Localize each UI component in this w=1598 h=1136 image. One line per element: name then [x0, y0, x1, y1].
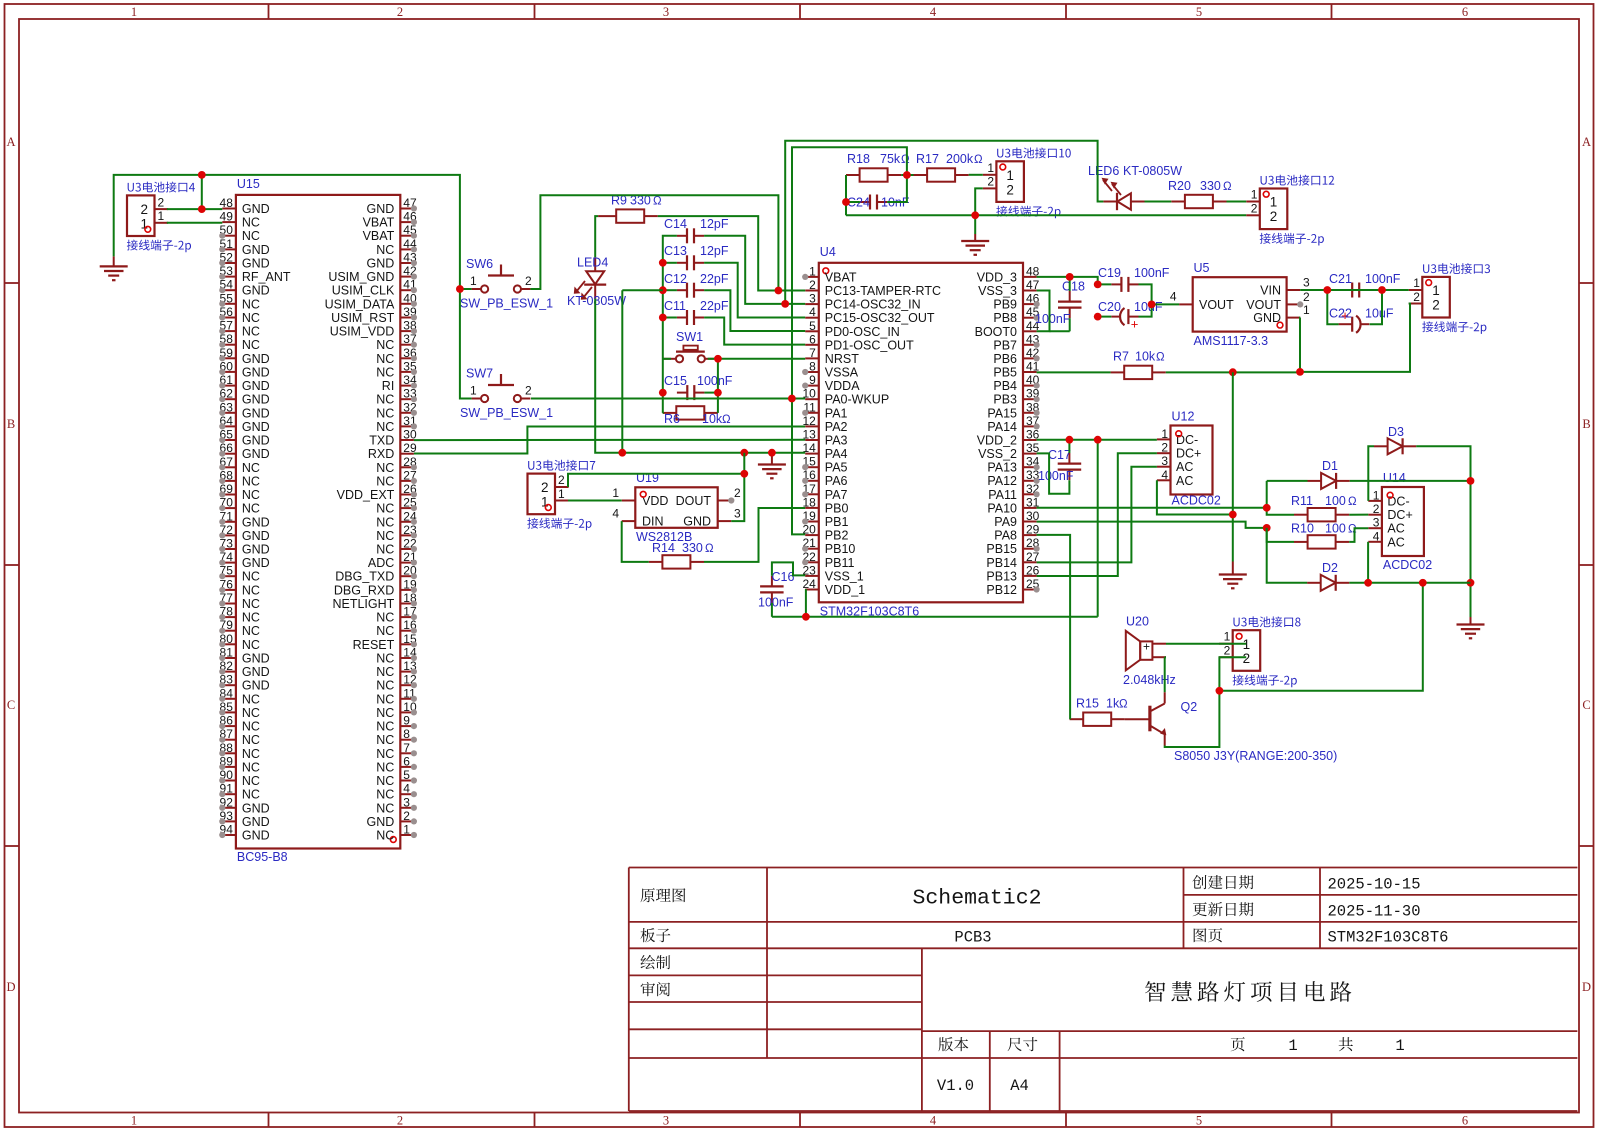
svg-text:NC: NC [376, 529, 394, 543]
svg-text:NC: NC [242, 760, 260, 774]
svg-text:NC: NC [376, 393, 394, 407]
svg-text:NC: NC [242, 747, 260, 761]
svg-text:GND: GND [242, 447, 270, 461]
connector U3dianchi-12 (接线端子-2p) [1246, 175, 1334, 246]
wire U5 GND down [1299, 318, 1301, 372]
svg-text:2: 2 [403, 809, 410, 823]
svg-text:GND: GND [242, 257, 270, 271]
wire top net A to PC14 and LED6 [785, 141, 1103, 304]
svg-text:3: 3 [1373, 516, 1380, 530]
wire D3 cathode to right column [1416, 446, 1470, 617]
svg-text:Ω: Ω [1156, 352, 1165, 364]
svg-text:4: 4 [1170, 290, 1177, 304]
svg-text:BOOT0: BOOT0 [975, 325, 1017, 339]
junction PA9/R10 [1263, 524, 1271, 532]
svg-text:USIM_RST: USIM_RST [331, 311, 395, 325]
svg-text:2: 2 [397, 1114, 403, 1128]
svg-text:GND: GND [242, 420, 270, 434]
wire U15 TXD to PA3 [414, 439, 805, 441]
capacitor C14 12pF [664, 217, 729, 243]
svg-text:GND: GND [242, 352, 270, 366]
svg-text:1: 1 [1270, 195, 1278, 210]
svg-text:2: 2 [1161, 441, 1168, 455]
svg-text:1: 1 [1432, 283, 1440, 298]
svg-text:BC95-B8: BC95-B8 [237, 850, 288, 864]
svg-text:NC: NC [376, 515, 394, 529]
svg-text:NC: NC [376, 733, 394, 747]
svg-text:NC: NC [376, 692, 394, 706]
svg-text:NC: NC [376, 461, 394, 475]
svg-text:Ω: Ω [901, 154, 910, 166]
ground PA4 net [758, 453, 786, 479]
svg-text:PB4: PB4 [993, 379, 1017, 393]
svg-text:NETLIGHT: NETLIGHT [332, 597, 394, 611]
svg-text:GND: GND [242, 365, 270, 379]
junction R7 row [1229, 368, 1304, 376]
svg-text:NC: NC [242, 611, 260, 625]
svg-text:Schematic2: Schematic2 [912, 887, 1041, 911]
svg-text:R14: R14 [652, 541, 675, 555]
svg-text:U15: U15 [237, 177, 260, 191]
svg-text:2: 2 [1006, 182, 1014, 197]
svg-text:VDD_3: VDD_3 [977, 270, 1017, 284]
svg-text:VBAT: VBAT [825, 270, 857, 284]
svg-text:NC: NC [242, 461, 260, 475]
svg-text:GND: GND [242, 665, 270, 679]
wire VDD_1 to 3V3 rail [772, 439, 1098, 616]
svg-text:100: 100 [1325, 522, 1346, 536]
wire U14 DC- to D3 anode [1368, 446, 1374, 501]
svg-text:VSSA: VSSA [825, 366, 859, 380]
junction ground rail [842, 171, 979, 219]
svg-text:PC13-TAMPER-RTC: PC13-TAMPER-RTC [825, 284, 941, 298]
svg-text:DBG_TXD: DBG_TXD [335, 570, 394, 584]
svg-text:100nF: 100nF [1035, 312, 1071, 326]
svg-text:NC: NC [242, 502, 260, 516]
svg-text:5: 5 [1196, 5, 1202, 19]
IC U19 WS2812B [612, 471, 741, 544]
svg-text:1: 1 [809, 264, 816, 278]
junction dots GND row [618, 449, 775, 457]
switch SW7 SW_PB_ESW_1 [460, 367, 553, 421]
svg-text:VBAT: VBAT [363, 216, 395, 230]
svg-text:2: 2 [987, 175, 994, 189]
wire PA10 to D1/R11 [1037, 481, 1308, 515]
svg-text:PA9: PA9 [994, 515, 1017, 529]
svg-text:PD1-OSC_OUT: PD1-OSC_OUT [825, 338, 914, 352]
svg-text:2: 2 [1251, 201, 1258, 215]
svg-text:2: 2 [1303, 290, 1310, 304]
svg-text:5: 5 [403, 768, 410, 782]
svg-text:1: 1 [131, 5, 137, 19]
svg-text:A4: A4 [1010, 1077, 1029, 1095]
capacitor C16 100nF [758, 570, 794, 610]
svg-text:GND: GND [683, 515, 711, 529]
svg-text:S8050 J3Y(RANGE:200-350): S8050 J3Y(RANGE:200-350) [1174, 749, 1337, 763]
svg-text:D: D [1582, 980, 1591, 994]
svg-text:3: 3 [663, 1114, 669, 1128]
svg-text:2: 2 [1270, 209, 1278, 224]
svg-text:Ω: Ω [974, 154, 983, 166]
svg-text:PA12: PA12 [987, 474, 1017, 488]
resistor R15 1k [1070, 697, 1128, 726]
svg-text:330: 330 [682, 541, 703, 555]
wire VDD_2 to U12 [1037, 440, 1157, 453]
svg-text:VSS_1: VSS_1 [825, 569, 864, 583]
svg-text:4: 4 [930, 5, 937, 19]
svg-text:PB13: PB13 [986, 569, 1017, 583]
svg-text:100nF: 100nF [697, 374, 733, 388]
wire R20 to conn12.1 [1227, 201, 1247, 203]
svg-text:TXD: TXD [369, 434, 394, 448]
svg-text:3: 3 [1303, 276, 1310, 290]
LED LED6 KT-0805W [1088, 164, 1182, 210]
svg-text:USIM_CLK: USIM_CLK [332, 284, 395, 298]
svg-text:12pF: 12pF [700, 244, 729, 258]
svg-text:3: 3 [403, 795, 410, 809]
svg-text:8: 8 [809, 360, 816, 374]
svg-text:NC: NC [376, 788, 394, 802]
wire PA8 to R15 [1037, 535, 1071, 719]
junction conn8 net [1216, 687, 1224, 695]
svg-text:C14: C14 [664, 217, 687, 231]
svg-text:NC: NC [242, 311, 260, 325]
wire R17 to conn10.1 [969, 174, 983, 176]
svg-text:AC: AC [1387, 535, 1404, 549]
svg-text:NC: NC [242, 597, 260, 611]
svg-text:GND: GND [242, 815, 270, 829]
capacitor C20 10uF polarized [1098, 300, 1163, 332]
svg-text:R18: R18 [847, 152, 870, 166]
svg-text:NC: NC [376, 352, 394, 366]
capacitor C11 22pF [664, 299, 729, 325]
svg-text:NC: NC [376, 502, 394, 516]
svg-text:NC: NC [376, 760, 394, 774]
svg-text:GND: GND [242, 556, 270, 570]
wire R10 to U14 AC3 [1349, 528, 1368, 542]
svg-text:C17: C17 [1048, 448, 1071, 462]
svg-text:2: 2 [541, 480, 549, 495]
svg-text:R10: R10 [1291, 522, 1314, 536]
wire C13 to PC15 [704, 263, 805, 318]
wire buzzer+ to conn8.1 [1166, 643, 1246, 645]
svg-text:GND: GND [242, 679, 270, 693]
svg-text:U4: U4 [820, 245, 836, 259]
svg-text:PB7: PB7 [993, 338, 1017, 352]
svg-text:4: 4 [1161, 468, 1168, 482]
svg-text:NC: NC [376, 474, 394, 488]
svg-text:1: 1 [558, 487, 565, 501]
svg-text:10k: 10k [1135, 350, 1156, 364]
svg-text:USIM_DATA: USIM_DATA [325, 297, 395, 311]
capacitor C15 100nF [664, 374, 733, 400]
svg-text:U5: U5 [1194, 261, 1210, 275]
svg-text:NC: NC [242, 692, 260, 706]
resistor R17 200k [914, 152, 984, 182]
wire C12 to PD0 [704, 290, 805, 331]
svg-text:AC: AC [1176, 460, 1193, 474]
wire C16 to VSS_1 [772, 562, 805, 575]
resistor R11 100 [1291, 494, 1357, 521]
wire C14 to PC14 [704, 236, 805, 304]
svg-text:NC: NC [242, 338, 260, 352]
svg-text:KT-0805W: KT-0805W [567, 294, 626, 308]
svg-text:SW7: SW7 [466, 367, 493, 381]
svg-text:C11: C11 [664, 299, 686, 313]
wire conn3.2 down to R7 row [1300, 304, 1410, 372]
svg-text:Ω: Ω [1223, 181, 1232, 193]
svg-text:6: 6 [1462, 1114, 1468, 1128]
svg-text:2: 2 [525, 384, 532, 398]
svg-text:4: 4 [1373, 529, 1380, 543]
svg-text:1: 1 [1006, 168, 1014, 183]
svg-text:6: 6 [403, 754, 410, 768]
svg-text:12pF: 12pF [700, 217, 729, 231]
svg-text:RXD: RXD [368, 447, 394, 461]
wire SW1/C15/R6 right to NRST [704, 359, 805, 413]
svg-text:U12: U12 [1172, 410, 1195, 424]
wire C19/C20 to U5 VOUT [1098, 284, 1179, 316]
svg-text:2: 2 [141, 202, 149, 217]
resistor R20 330 [1168, 179, 1232, 208]
svg-text:PA13: PA13 [987, 461, 1017, 475]
wire U19 DIN to R14 [622, 521, 649, 562]
svg-text:C21: C21 [1329, 272, 1352, 286]
svg-text:1k: 1k [1106, 697, 1120, 711]
junction D2 row [1364, 579, 1427, 587]
IC U15 BC95-B8 [219, 177, 417, 864]
svg-text:VDD_1: VDD_1 [825, 583, 865, 597]
svg-text:NC: NC [376, 243, 394, 257]
svg-text:GND: GND [242, 379, 270, 393]
svg-text:C18: C18 [1062, 280, 1085, 294]
wire Q2 emitter / conn8.2 ground net [1165, 657, 1247, 747]
svg-text:PB14: PB14 [986, 556, 1017, 570]
wire VSS_2 to C17 [1037, 453, 1070, 493]
svg-text:6: 6 [1462, 5, 1468, 19]
svg-text:10uF: 10uF [1134, 300, 1163, 314]
svg-text:5: 5 [809, 319, 816, 333]
resistor R10 100 [1291, 522, 1357, 549]
transistor Q2 S8050 [1125, 692, 1337, 763]
wire Q2 collector to buzzer [1165, 657, 1166, 692]
IC U5 AMS1117-3.3 [1170, 261, 1310, 348]
svg-text:1: 1 [1373, 488, 1380, 502]
svg-text:1: 1 [1413, 276, 1420, 290]
diode D3 [1374, 425, 1416, 454]
wire SW7.2 to PA0 [531, 398, 805, 400]
diode D2 [1307, 561, 1349, 591]
diode D1 [1308, 459, 1350, 489]
svg-text:NC: NC [242, 488, 260, 502]
svg-text:NC: NC [376, 624, 394, 638]
svg-text:PA3: PA3 [825, 434, 848, 448]
svg-text:NC: NC [242, 774, 260, 788]
resistor R14 330 [649, 541, 714, 569]
svg-text:NC: NC [242, 788, 260, 802]
junction PC13 [775, 287, 783, 295]
svg-text:DC-: DC- [1387, 494, 1409, 508]
svg-text:2: 2 [158, 195, 165, 209]
svg-text:RESET: RESET [353, 638, 395, 652]
wire R11 to U14 DC+ [1349, 514, 1368, 516]
svg-text:PA5: PA5 [825, 461, 848, 475]
svg-text:NC: NC [376, 543, 394, 557]
svg-text:GND: GND [1253, 311, 1281, 325]
svg-text:VIN: VIN [1260, 284, 1281, 298]
IC U4 STM32F103C8T6 [802, 245, 1040, 619]
svg-text:PB12: PB12 [986, 583, 1017, 597]
ground conn10 net [961, 234, 989, 255]
title block text [641, 875, 1449, 1095]
wire U15 RXD to PA2 [414, 427, 805, 454]
wire BOOT0 ground column [1232, 372, 1234, 561]
svg-text:SW_PB_ESW_1: SW_PB_ESW_1 [460, 406, 553, 420]
svg-text:49: 49 [220, 210, 234, 224]
svg-text:2.048kHz: 2.048kHz [1123, 673, 1176, 687]
svg-text:R11: R11 [1291, 494, 1313, 508]
svg-text:100nF: 100nF [1134, 266, 1170, 280]
junction SW1 right [714, 355, 722, 397]
svg-text:PA0-WKUP: PA0-WKUP [825, 393, 889, 407]
buzzer U20 2.048kHz [1123, 615, 1176, 688]
svg-text:C15: C15 [664, 374, 687, 388]
svg-text:GND: GND [242, 406, 270, 420]
svg-text:VOUT: VOUT [1199, 298, 1234, 312]
svg-text:GND: GND [242, 801, 270, 815]
svg-text:STM32F103C8T6: STM32F103C8T6 [1328, 929, 1449, 947]
svg-text:GND: GND [242, 393, 270, 407]
svg-text:A: A [1582, 135, 1591, 149]
svg-text:2025-11-30: 2025-11-30 [1328, 903, 1421, 921]
wire GND row via LED4 cathode [595, 290, 805, 453]
svg-text:ADC: ADC [368, 556, 394, 570]
svg-text:2: 2 [1413, 290, 1420, 304]
svg-text:C13: C13 [664, 244, 687, 258]
wire R18 R17 junction [887, 175, 913, 202]
wire U19 GND to PA4 row [731, 453, 744, 521]
wire U5 VIN to C21/conn3 [1300, 290, 1409, 324]
svg-text:GND: GND [242, 434, 270, 448]
resistor R7 10k [1111, 350, 1166, 380]
svg-text:2: 2 [397, 5, 403, 19]
wire PA9 to R10 [1037, 522, 1294, 542]
svg-text:PC15-OSC32_OUT: PC15-OSC32_OUT [825, 311, 935, 325]
svg-text:GND: GND [367, 202, 395, 216]
svg-text:1: 1 [131, 1114, 137, 1128]
svg-text:1: 1 [1224, 630, 1231, 644]
ground right column [1457, 617, 1485, 638]
svg-text:C12: C12 [664, 272, 687, 286]
svg-text:PB3: PB3 [993, 393, 1017, 407]
svg-text:R6: R6 [664, 412, 680, 426]
svg-text:NC: NC [242, 570, 260, 584]
svg-text:1: 1 [1303, 303, 1310, 317]
svg-text:NC: NC [242, 325, 260, 339]
svg-text:SW1: SW1 [676, 330, 703, 344]
svg-text:SW_PB_ESW_1: SW_PB_ESW_1 [460, 297, 553, 311]
svg-text:DC+: DC+ [1387, 508, 1412, 522]
svg-text:GND: GND [242, 202, 270, 216]
junction dots cap chain [659, 259, 667, 397]
resistor R18 75k [846, 152, 910, 182]
svg-text:24: 24 [802, 577, 816, 591]
svg-text:2: 2 [1243, 651, 1251, 666]
svg-text:D: D [6, 980, 15, 994]
svg-text:2025-10-15: 2025-10-15 [1328, 876, 1421, 894]
svg-text:NC: NC [242, 474, 260, 488]
svg-text:+: + [1131, 317, 1139, 332]
svg-text:D3: D3 [1388, 425, 1404, 439]
ground near connector4 [100, 256, 128, 280]
junction PA0 [788, 395, 796, 403]
svg-text:VBAT: VBAT [363, 229, 395, 243]
svg-text:PB11: PB11 [825, 556, 855, 570]
svg-text:3: 3 [1161, 454, 1168, 468]
svg-text:1: 1 [1161, 427, 1168, 441]
svg-text:+: + [1143, 640, 1150, 654]
svg-text:NC: NC [376, 420, 394, 434]
svg-text:V1.0: V1.0 [937, 1077, 974, 1095]
svg-text:KT-0805W: KT-0805W [1123, 164, 1182, 178]
svg-text:PA8: PA8 [994, 529, 1017, 543]
svg-text:PA6: PA6 [825, 474, 848, 488]
junction dots top-left [198, 171, 464, 293]
svg-text:NC: NC [242, 216, 260, 230]
svg-text:C22: C22 [1329, 307, 1352, 321]
wire VDD_3 to C19/C18 [1037, 277, 1112, 291]
svg-text:GND: GND [242, 529, 270, 543]
svg-text:PA10: PA10 [987, 501, 1017, 515]
svg-text:GND: GND [367, 257, 395, 271]
svg-text:GND: GND [242, 515, 270, 529]
junction C21/C22 [1323, 286, 1386, 294]
capacitor C21 100nF [1329, 272, 1401, 298]
svg-text:PC14-OSC32_IN: PC14-OSC32_IN [825, 298, 921, 312]
capacitor C13 12pF [664, 244, 729, 270]
svg-text:C: C [1582, 698, 1590, 712]
svg-text:GND: GND [242, 829, 270, 843]
svg-text:3: 3 [809, 292, 816, 306]
svg-text:GND: GND [242, 243, 270, 257]
wire C11 to PD1 [704, 318, 805, 345]
svg-text:2: 2 [1432, 298, 1440, 313]
svg-text:PB9: PB9 [993, 298, 1017, 312]
svg-text:75k: 75k [880, 152, 901, 166]
svg-text:VSS_2: VSS_2 [978, 447, 1017, 461]
svg-text:200k: 200k [946, 152, 974, 166]
svg-text:C20: C20 [1098, 300, 1121, 314]
capacitor C19 100nF [1098, 266, 1170, 292]
svg-text:100nF: 100nF [1365, 272, 1401, 286]
switch SW1 [663, 330, 714, 362]
svg-text:NC: NC [376, 611, 394, 625]
svg-text:DBG_RXD: DBG_RXD [334, 583, 394, 597]
wire D1 cathode right [1350, 480, 1471, 482]
svg-text:DIN: DIN [642, 515, 664, 529]
wire PB5 to R7 [1037, 371, 1300, 373]
svg-text:PD0-OSC_IN: PD0-OSC_IN [825, 325, 900, 339]
IC U14 ACDC02 [1368, 471, 1432, 572]
svg-text:GND: GND [367, 815, 395, 829]
wire VBAT/ground net top-left [114, 175, 472, 399]
svg-text:9: 9 [809, 373, 816, 387]
title block table [629, 868, 1578, 1112]
svg-text:B: B [7, 417, 15, 431]
svg-text:2: 2 [525, 274, 532, 288]
svg-text:R7: R7 [1113, 350, 1129, 364]
resistor R6 10k [663, 406, 731, 426]
